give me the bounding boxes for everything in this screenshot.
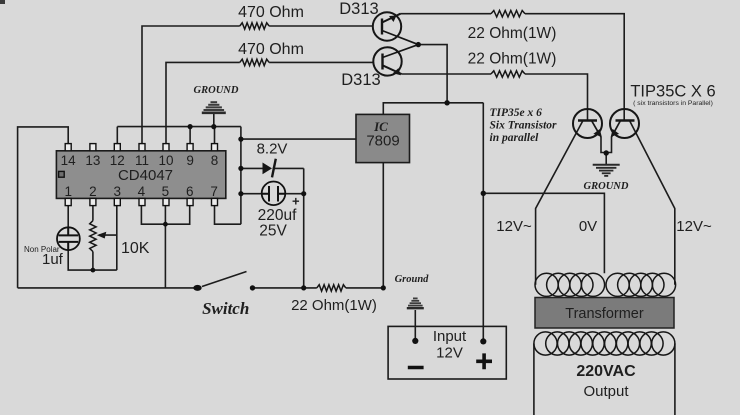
wire pin7 link: [215, 206, 241, 224]
pin numbers bottom row: [64, 184, 217, 199]
wire pin5 drop to switch rail: [164, 224, 166, 288]
pins bottom 1..7: [65, 198, 217, 205]
wire pin8 riser: [214, 127, 216, 144]
svg-text:11: 11: [135, 153, 149, 168]
wire pin11 to 470 Ohm R1: [142, 26, 240, 144]
wire zener row: [241, 167, 304, 169]
transformer primary coil right: [606, 273, 676, 296]
wire pot bottom: [92, 252, 94, 271]
wire TIP emitters join: [601, 137, 612, 153]
wire ground symbol drop: [213, 114, 215, 127]
svg-text:Ground: Ground: [395, 274, 430, 285]
wire R1 to Q1 base: [269, 25, 373, 27]
wire Q4 collector diagonal to transformer: [630, 121, 675, 285]
transformer core box: [535, 298, 674, 329]
wire Q1/Q2 junction to bus: [418, 45, 447, 103]
svg-text:Output: Output: [583, 383, 629, 400]
wire cap C2 row: [241, 193, 304, 195]
wire R5 to 7809 drop: [346, 287, 384, 289]
svg-text:9: 9: [186, 153, 194, 168]
wire 7809 output drop: [382, 163, 384, 288]
capacitor C1 non polar 1uf: [57, 227, 80, 250]
wire switch to R5: [253, 287, 317, 289]
resistor R2 470 Ohm: [240, 59, 269, 65]
svg-text:Six Transistor: Six Transistor: [490, 120, 558, 132]
svg-text:7: 7: [210, 184, 218, 199]
transistor Q3 TIP35C: [573, 109, 602, 138]
svg-text:12V~: 12V~: [496, 218, 532, 235]
svg-text:Switch: Switch: [202, 299, 249, 318]
switch S1: [193, 285, 201, 291]
svg-text:6: 6: [186, 184, 194, 199]
svg-text:GROUND: GROUND: [194, 85, 239, 96]
wire R3 to TIP Q4: [525, 14, 624, 121]
svg-text:22 Ohm(1W): 22 Ohm(1W): [291, 297, 377, 314]
wire C1 bottom rail: [68, 250, 117, 270]
wire secondary right output: [674, 344, 676, 415]
transistor Q2 D313: [373, 45, 418, 76]
svg-text:in parallel: in parallel: [490, 132, 540, 144]
svg-text:CD4047: CD4047: [118, 167, 173, 184]
wire pin10 to 470 Ohm R2: [166, 62, 240, 144]
svg-text:TIP35e x 6: TIP35e x 6: [490, 107, 543, 119]
svg-text:Input: Input: [433, 328, 467, 345]
wire battery plus riser: [482, 103, 484, 342]
wire 7809 top pin: [383, 103, 483, 115]
svg-text:1: 1: [64, 184, 72, 199]
svg-text:12: 12: [110, 153, 125, 168]
ground symbol top-left: [202, 102, 226, 113]
svg-text:10: 10: [158, 153, 173, 168]
svg-text:( six transistors in Parallel): ( six transistors in Parallel): [633, 100, 713, 107]
wire R2 to Q2 base: [269, 61, 373, 63]
svg-text:TIP35C X 6: TIP35C X 6: [630, 83, 715, 101]
wire pin14 top loop: [18, 127, 69, 288]
transistor Q1 D313: [373, 12, 419, 44]
corner artifact: [0, 0, 5, 4]
wire 303 vertical: [303, 168, 305, 288]
transformer primary coil left: [535, 273, 605, 296]
svg-text:2: 2: [89, 184, 97, 199]
potentiometer R6 10K: [90, 221, 96, 252]
wire Q3 collector diagonal to transformer: [536, 121, 583, 285]
wire pin9 riser: [189, 127, 191, 144]
wire pin1 to C1: [67, 206, 69, 227]
wire left bottom rail to switch: [18, 287, 198, 289]
wire pin12 riser: [116, 127, 118, 144]
zener D1 8.2V: [263, 163, 273, 175]
wire Q1 collector to 22 Ohm R3: [401, 13, 492, 15]
resistor R1 470 Ohm: [240, 23, 269, 29]
transformer secondary coil: [534, 332, 675, 355]
wire right vertical bus from rail to pin7 level: [240, 127, 242, 225]
svg-text:4: 4: [138, 184, 146, 199]
wire Q2 emitter to 22 Ohm R4: [402, 73, 492, 75]
wire R4 to TIP Q3: [525, 74, 588, 121]
svg-text:5: 5: [162, 184, 170, 199]
svg-text:22 Ohm(1W): 22 Ohm(1W): [468, 25, 557, 42]
wire 0V branch: [483, 193, 604, 273]
svg-text:14: 14: [61, 153, 77, 168]
svg-text:13: 13: [85, 153, 100, 168]
svg-text:D313: D313: [339, 0, 378, 18]
svg-text:25V: 25V: [259, 223, 287, 240]
battery input box: [388, 326, 506, 379]
wire pins 4-5-6 tie: [141, 206, 189, 224]
transistor Q4 TIP35C: [610, 109, 639, 138]
svg-text:Transformer: Transformer: [565, 306, 644, 322]
capacitor C2 220uf 25V: [262, 182, 286, 206]
svg-text:12V: 12V: [436, 345, 463, 362]
svg-text:10K: 10K: [121, 240, 150, 257]
ground symbol at battery minus: [407, 298, 424, 308]
svg-text:8: 8: [211, 153, 219, 168]
wire ground symbol to minus terminal: [414, 310, 416, 341]
wire secondary left output: [533, 344, 535, 415]
pin numbers top row: [61, 153, 219, 168]
IC U1 CD4047: [56, 151, 225, 199]
svg-text:8.2V: 8.2V: [257, 141, 288, 158]
wire bus to 7809 input: [241, 138, 356, 140]
svg-text:22 Ohm(1W): 22 Ohm(1W): [468, 51, 557, 68]
ground symbol under TIP pair: [593, 165, 620, 176]
wire pot wiper: [99, 234, 117, 236]
IC U2 7809: [356, 114, 410, 162]
svg-text:470 Ohm: 470 Ohm: [238, 4, 304, 21]
svg-text:1uf: 1uf: [42, 251, 64, 268]
wire pin3 drop: [116, 206, 118, 270]
svg-text:220VAC: 220VAC: [576, 363, 636, 380]
wire pin2 to pot: [92, 206, 94, 221]
resistor R4 22 Ohm(1W): [491, 71, 525, 77]
svg-text:GROUND: GROUND: [584, 181, 629, 192]
svg-text:220uf: 220uf: [258, 207, 297, 224]
svg-text:D313: D313: [341, 71, 380, 89]
svg-text:12V~: 12V~: [676, 218, 712, 235]
wire TIP ground drop: [605, 153, 607, 165]
resistor R3 22 Ohm(1W): [491, 11, 525, 17]
ground rail above IC: [117, 126, 241, 128]
svg-text:470 Ohm: 470 Ohm: [238, 41, 304, 58]
svg-text:0V: 0V: [579, 218, 597, 235]
pins top 14..8: [65, 144, 217, 151]
resistor R5 22 Ohm(1W): [317, 285, 346, 291]
svg-text:7809: 7809: [366, 133, 399, 150]
svg-text:3: 3: [114, 184, 122, 199]
